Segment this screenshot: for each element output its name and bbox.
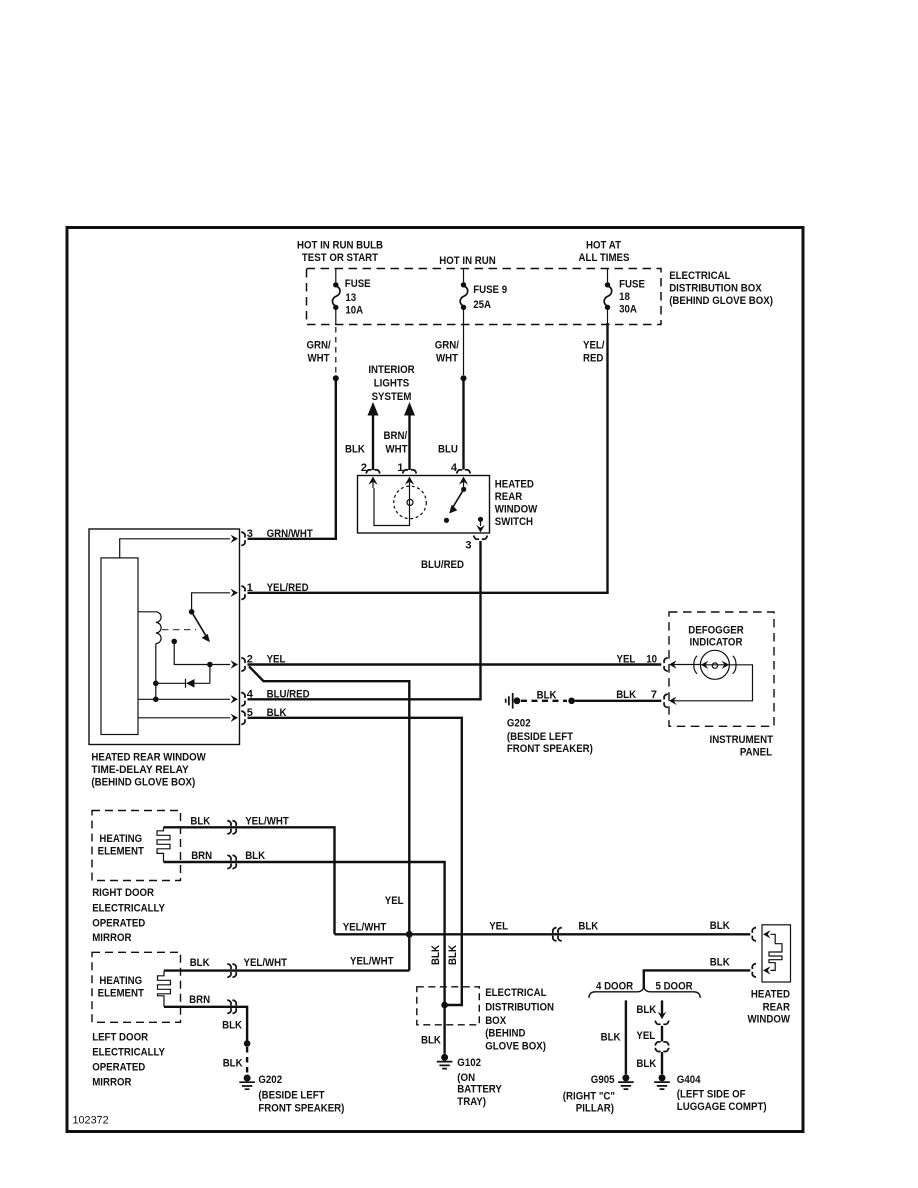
label HEATED REAR WINDOW TIME-DELAY RELAY (BEHIND GLOVE BOX): [91, 751, 206, 788]
switch pin 3 contact and output: [476, 517, 484, 533]
heated rear window switch box: [358, 476, 490, 534]
svg-text:BLK: BLK: [636, 1058, 656, 1070]
svg-text:SWITCH: SWITCH: [495, 516, 533, 528]
right door heating element box (dashed): [92, 811, 181, 881]
wire YEL relay pin 2 to defogger indicator: [248, 663, 662, 665]
svg-text:G404: G404: [677, 1074, 701, 1086]
relay contact pivot: [189, 609, 195, 615]
svg-text:BLK: BLK: [190, 815, 210, 827]
svg-text:ELECTRICALLY: ELECTRICALLY: [92, 902, 165, 914]
svg-text:REAR: REAR: [763, 1001, 790, 1013]
svg-text:BRN: BRN: [191, 850, 212, 862]
heated rear window box: [762, 925, 791, 982]
svg-text:HEATING: HEATING: [99, 975, 142, 987]
svg-text:OPERATED: OPERATED: [92, 917, 145, 929]
label ELECTRICAL DISTRIBUTION BOX (BEHIND GLOVE BOX): [669, 270, 773, 307]
relay blade with arrowhead: [192, 612, 210, 642]
svg-text:YEL: YEL: [617, 654, 636, 666]
wire YEL/RED from fuse 18 to relay pin 1: [248, 310, 608, 593]
svg-text:GLOVE BOX): GLOVE BOX): [485, 1040, 546, 1052]
svg-text:HEATING: HEATING: [99, 833, 142, 845]
svg-text:BLK: BLK: [223, 1057, 243, 1069]
svg-text:G202: G202: [507, 718, 531, 730]
svg-text:BLK: BLK: [616, 689, 636, 701]
svg-text:HOT AT: HOT AT: [586, 240, 621, 252]
svg-text:HEATED: HEATED: [751, 989, 790, 1001]
connector on right mirror bottom wire: [227, 855, 231, 869]
svg-text:BLK: BLK: [578, 921, 598, 933]
relay inner block: [101, 558, 138, 735]
svg-text:BLK: BLK: [245, 850, 265, 862]
svg-text:BLU: BLU: [438, 443, 458, 455]
label G202 (BESIDE LEFT FRONT SPEAKER) lower: [258, 1074, 344, 1115]
ground G102: [441, 1054, 448, 1061]
svg-text:BATTERY: BATTERY: [457, 1084, 502, 1096]
relay pin 5 connector: [241, 707, 253, 725]
svg-text:LIGHTS: LIGHTS: [374, 378, 410, 390]
svg-text:2: 2: [361, 462, 367, 474]
relay pin 2 connector: [241, 654, 253, 672]
ground G905: [622, 1074, 629, 1081]
switch pin 3 connector: [465, 536, 487, 552]
wire arrow to interior lights (BLK): [368, 402, 379, 470]
ground G202 (left mirror): [244, 1075, 251, 1082]
svg-text:7: 7: [651, 689, 657, 701]
wire contact to relay pin 2: [174, 641, 238, 668]
svg-text:MIRROR: MIRROR: [92, 1077, 131, 1089]
heated rear window time-delay relay box: [89, 529, 240, 745]
wire BLK/YEL-WHT right mirror top: [164, 827, 335, 934]
node junction on G202 wire: [568, 698, 575, 705]
wire YEL branch down to junction: [249, 666, 409, 934]
inline connector 5-door lower: [655, 1042, 669, 1052]
svg-text:WHT: WHT: [308, 353, 330, 365]
svg-text:YEL: YEL: [636, 1030, 655, 1042]
label HEATING ELEMENT (left door): [98, 975, 145, 999]
relay coil: [138, 612, 161, 644]
svg-text:BLK: BLK: [537, 690, 557, 702]
svg-text:BLK: BLK: [447, 945, 459, 965]
fuse 9 25A: [460, 269, 507, 312]
label HEATED REAR WINDOW SWITCH: [495, 479, 538, 529]
svg-text:(ON: (ON: [457, 1072, 475, 1084]
wire BRN/BLK right mirror bottom: [164, 862, 445, 1005]
svg-text:HEATED REAR WINDOW: HEATED REAR WINDOW: [91, 751, 206, 763]
svg-text:G905: G905: [591, 1074, 615, 1086]
svg-text:YEL/WHT: YEL/WHT: [350, 956, 394, 968]
wire BRN left mirror bottom: [164, 1007, 247, 1044]
label HEATED REAR WINDOW: [748, 989, 791, 1026]
svg-text:13: 13: [345, 292, 356, 304]
svg-text:FRONT SPEAKER): FRONT SPEAKER): [507, 743, 593, 755]
indicator lamp in switch (dashed circle): [394, 486, 427, 519]
connector on left mirror bottom wire: [227, 1000, 231, 1014]
svg-text:YEL/: YEL/: [583, 340, 605, 352]
svg-text:(BEHIND: (BEHIND: [485, 1028, 525, 1040]
svg-text:HEATED: HEATED: [495, 479, 534, 491]
label DEFOGGER INDICATOR: [688, 624, 743, 648]
svg-text:25A: 25A: [473, 299, 491, 311]
switch pin 1 connector: [397, 462, 416, 488]
wire BLK dashed to G202: [246, 1047, 248, 1073]
electrical distribution box (top, dashed): [307, 269, 662, 325]
wire diode to pin 2 wire: [209, 665, 211, 684]
svg-text:ELECTRICAL: ELECTRICAL: [485, 987, 547, 999]
label LEFT DOOR ELECTRICALLY OPERATED MIRROR: [92, 1031, 165, 1088]
label HOT AT ALL TIMES: [579, 240, 630, 264]
svg-text:HOT IN RUN BULB: HOT IN RUN BULB: [297, 240, 383, 252]
label YEL/RED fuse 18 wire: [583, 340, 605, 365]
svg-text:HOT IN RUN: HOT IN RUN: [439, 255, 496, 267]
svg-text:PILLAR): PILLAR): [576, 1102, 614, 1114]
defogger indicator lamp: [694, 650, 736, 679]
svg-text:(BEHIND GLOVE BOX): (BEHIND GLOVE BOX): [91, 777, 195, 789]
wire BLK to G102: [443, 1005, 445, 1054]
wire BLK to defogger pin 7: [572, 700, 662, 702]
defogger pin 7 connector: [651, 689, 677, 708]
svg-text:BLK: BLK: [345, 443, 365, 455]
svg-text:BLK: BLK: [601, 1032, 621, 1044]
wire 5-door branch upper BLK: [661, 1000, 663, 1015]
svg-text:WHT: WHT: [436, 353, 458, 365]
svg-text:SYSTEM: SYSTEM: [372, 391, 412, 403]
svg-text:BRN: BRN: [189, 994, 210, 1006]
label BRN/WHT switch pin 1 wire: [384, 430, 408, 456]
ground G202 (beside left front speaker, sideways): [506, 693, 521, 709]
inline connector 5-door upper: [655, 1012, 669, 1025]
label RIGHT DOOR ELECTRICALLY OPERATED MIRROR: [92, 887, 165, 944]
svg-text:3: 3: [247, 528, 253, 540]
wire YEL/BLK main line to heated rear window: [335, 933, 751, 935]
svg-text:3: 3: [465, 540, 471, 552]
svg-text:INDICATOR: INDICATOR: [690, 637, 743, 649]
svg-text:BLK: BLK: [710, 957, 730, 969]
window top terminal connector: [752, 928, 756, 942]
wire GRN/WHT heavy to relay pin 3: [248, 378, 336, 539]
svg-text:10: 10: [646, 654, 657, 666]
svg-text:BOX: BOX: [485, 1015, 507, 1027]
relay pin 1 connector: [241, 582, 253, 600]
node coil-diode junction: [153, 681, 159, 687]
svg-text:ELECTRICAL: ELECTRICAL: [669, 270, 731, 282]
electrical distribution box (bottom, dashed): [417, 987, 480, 1025]
label HOT IN RUN BULB TEST OR START: [297, 240, 383, 264]
svg-text:YEL/RED: YEL/RED: [267, 582, 309, 594]
svg-text:DEFOGGER: DEFOGGER: [688, 624, 743, 636]
svg-text:BLK: BLK: [636, 1004, 656, 1016]
svg-text:YEL/WHT: YEL/WHT: [244, 957, 288, 969]
svg-text:ELEMENT: ELEMENT: [98, 845, 145, 857]
fuse 18 30A: [604, 269, 645, 316]
label G202 (BESIDE LEFT FRONT SPEAKER): [507, 718, 593, 755]
svg-text:BLK: BLK: [190, 957, 210, 969]
svg-text:LEFT DOOR: LEFT DOOR: [92, 1031, 148, 1043]
svg-text:FUSE 9: FUSE 9: [473, 284, 507, 296]
instrument panel box (dashed): [669, 612, 774, 726]
svg-text:OPERATED: OPERATED: [92, 1062, 145, 1074]
label ELECTRICAL DISTRIBUTION BOX (BEHIND GLOVE BOX) bottom: [485, 987, 554, 1052]
svg-text:FUSE: FUSE: [345, 278, 371, 290]
node coil to pin 4 junction: [153, 697, 159, 703]
svg-text:RIGHT DOOR: RIGHT DOOR: [92, 887, 154, 899]
svg-text:LUGGAGE COMPT): LUGGAGE COMPT): [677, 1101, 767, 1113]
svg-text:FRONT SPEAKER): FRONT SPEAKER): [258, 1103, 344, 1115]
svg-text:TRAY): TRAY): [457, 1096, 486, 1108]
label G905 (RIGHT C PILLAR): [563, 1074, 615, 1114]
svg-text:ELEMENT: ELEMENT: [98, 987, 145, 999]
wire BLK/YEL-WHT left mirror top: [164, 934, 409, 970]
label G102 (ON BATTERY TRAY): [457, 1057, 502, 1108]
svg-text:RED: RED: [583, 353, 603, 365]
relay pin 4 internal wire and arrow: [138, 695, 238, 703]
switch blade contact (pin 4 side): [449, 487, 466, 514]
svg-text:PANEL: PANEL: [740, 746, 772, 758]
wire GRN/WHT from fuse 13 dashed segment: [335, 310, 337, 374]
node junction left mirror ground wire: [244, 1040, 251, 1047]
relay mechanical link (dashed): [162, 629, 196, 631]
svg-text:INSTRUMENT: INSTRUMENT: [710, 734, 774, 746]
label G404 (LEFT SIDE OF LUGGAGE COMPT): [677, 1074, 767, 1113]
connector on left mirror top wire: [227, 964, 231, 978]
svg-text:ALL TIMES: ALL TIMES: [579, 252, 630, 264]
fuse 13 10A: [332, 269, 370, 317]
connector on right mirror top wire: [227, 821, 231, 835]
label GRN/WHT fuse 13 wire: [307, 340, 331, 365]
svg-text:TIME-DELAY RELAY: TIME-DELAY RELAY: [91, 764, 189, 776]
relay fixed contact dot: [171, 639, 177, 645]
svg-text:BLU/RED: BLU/RED: [267, 688, 310, 700]
svg-text:1: 1: [397, 462, 403, 474]
switch pin 4 connector: [451, 462, 470, 487]
wire lamp to pin 7: [673, 665, 753, 701]
heating element resistor (left door): [158, 971, 171, 1007]
node junction on fuse 9 wire: [461, 375, 467, 381]
svg-text:BLU/RED: BLU/RED: [421, 559, 464, 571]
svg-text:INTERIOR: INTERIOR: [368, 364, 414, 376]
relay pin 3 internal wire and arrow: [120, 535, 238, 558]
svg-text:BRN/: BRN/: [384, 430, 408, 442]
svg-text:YEL/WHT: YEL/WHT: [245, 815, 289, 827]
heating element resistor (right door): [157, 827, 170, 862]
wire 5-door lower BLK: [661, 1052, 663, 1074]
svg-text:4 DOOR: 4 DOOR: [596, 980, 633, 992]
window bottom terminal connector: [752, 964, 756, 978]
svg-text:G102: G102: [457, 1057, 481, 1069]
node junction on fuse 13 wire: [333, 375, 339, 381]
defogger pin 10 connector: [646, 654, 700, 672]
svg-text:1: 1: [247, 582, 253, 594]
relay pin 5 internal wire and arrow: [138, 714, 238, 722]
svg-text:(BESIDE LEFT: (BESIDE LEFT: [258, 1090, 324, 1102]
svg-text:G202: G202: [258, 1074, 282, 1086]
wire coil to diode junction: [155, 644, 157, 700]
svg-text:(BEHIND GLOVE BOX): (BEHIND GLOVE BOX): [669, 295, 773, 307]
svg-text:YEL: YEL: [385, 895, 404, 907]
svg-text:BLK: BLK: [710, 920, 730, 932]
svg-text:(LEFT SIDE OF: (LEFT SIDE OF: [677, 1088, 746, 1100]
inline connector on main line: [553, 928, 557, 942]
svg-text:5 DOOR: 5 DOOR: [656, 980, 693, 992]
switch pin 2 connector: [361, 462, 380, 488]
label GRN/WHT fuse 9 wire: [435, 340, 459, 365]
svg-text:10A: 10A: [345, 305, 363, 317]
svg-text:FUSE: FUSE: [619, 278, 645, 290]
relay pin 4 connector: [241, 688, 254, 706]
svg-text:ELECTRICALLY: ELECTRICALLY: [92, 1047, 165, 1059]
svg-text:WINDOW: WINDOW: [495, 504, 538, 516]
svg-text:MIRROR: MIRROR: [92, 932, 131, 944]
svg-text:(BESIDE LEFT: (BESIDE LEFT: [507, 731, 573, 743]
wire BLK relay pin 5 down to distribution box: [248, 718, 462, 1005]
window element (defroster grid): [763, 930, 782, 975]
svg-text:4: 4: [247, 688, 254, 700]
node junction in distribution box: [441, 1002, 448, 1009]
svg-text:BLK: BLK: [421, 1035, 441, 1047]
wire BLU/RED from switch pin 3 to relay pin 4: [248, 541, 481, 699]
svg-text:YEL/WHT: YEL/WHT: [343, 921, 387, 933]
svg-text:WINDOW: WINDOW: [748, 1014, 791, 1026]
ground G404: [659, 1074, 666, 1081]
svg-text:30A: 30A: [619, 303, 637, 315]
label INSTRUMENT PANEL: [710, 734, 774, 759]
svg-text:18: 18: [619, 291, 630, 303]
svg-text:BLK: BLK: [430, 945, 442, 965]
svg-text:REAR: REAR: [495, 491, 522, 503]
wire lamp loop to pin 2: [374, 488, 410, 526]
label INTERIOR LIGHTS SYSTEM: [368, 364, 414, 403]
wire 5-door YEL: [661, 1026, 663, 1042]
relay pin 3 connector: [241, 528, 253, 546]
svg-text:GRN/WHT: GRN/WHT: [267, 528, 313, 540]
svg-text:DISTRIBUTION BOX: DISTRIBUTION BOX: [669, 283, 762, 295]
wire BLK 4-door branch: [625, 1000, 627, 1074]
svg-text:WHT: WHT: [386, 443, 408, 455]
wire BLK window bottom: [644, 970, 751, 989]
wire BLK dashed from G202: [521, 700, 567, 702]
label HEATING ELEMENT (right door): [98, 833, 145, 857]
svg-text:YEL: YEL: [489, 921, 508, 933]
svg-text:4: 4: [451, 462, 458, 474]
variant brace: [589, 988, 701, 998]
page border frame: [67, 228, 803, 1132]
wire arrow to interior lights (BRN/WHT): [404, 402, 415, 470]
left door heating element box (dashed): [92, 952, 181, 1022]
node pin 2 junction: [207, 662, 213, 668]
svg-text:DISTRIBUTION: DISTRIBUTION: [485, 1002, 554, 1014]
svg-text:TEST OR START: TEST OR START: [302, 252, 378, 264]
svg-text:102372: 102372: [73, 1114, 109, 1126]
svg-text:(RIGHT "C": (RIGHT "C": [563, 1090, 615, 1102]
svg-text:BLK: BLK: [222, 1020, 242, 1032]
wire BLU from fuse 9 to switch pin 4: [463, 310, 465, 470]
svg-text:GRN/: GRN/: [307, 340, 331, 352]
svg-text:GRN/: GRN/: [435, 340, 459, 352]
relay pin 1 internal wire and arrow: [192, 589, 238, 611]
switch blade open contact dot: [444, 518, 449, 523]
node main YEL junction: [406, 931, 413, 938]
diode D1: [156, 679, 210, 688]
